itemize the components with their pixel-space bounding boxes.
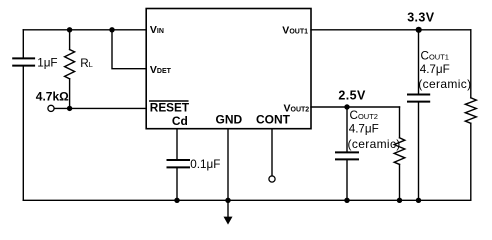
svg-text:CONT: CONT (256, 112, 291, 126)
svg-text:(ceramic): (ceramic) (418, 77, 471, 91)
svg-text:4.7μF: 4.7μF (349, 123, 379, 136)
svg-text:4.7μF: 4.7μF (420, 63, 450, 76)
svg-text:4.7kΩ: 4.7kΩ (36, 90, 69, 104)
svg-text:RESET: RESET (150, 101, 190, 115)
svg-text:1μF: 1μF (37, 56, 57, 69)
svg-text:GND: GND (216, 112, 243, 126)
svg-text:Cd: Cd (172, 114, 188, 128)
svg-text:0.1μF: 0.1μF (190, 158, 220, 171)
svg-text:2.5V: 2.5V (338, 89, 366, 103)
svg-text:3.3V: 3.3V (407, 10, 435, 24)
svg-text:(ceramic): (ceramic) (348, 137, 401, 151)
